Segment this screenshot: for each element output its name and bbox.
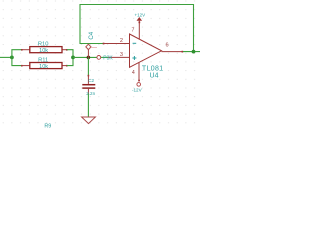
svg-text:U4: U4 — [150, 73, 159, 80]
svg-text:7: 7 — [132, 28, 135, 34]
pin 6 (output) — [162, 43, 184, 53]
pin 7 (V+) — [132, 22, 140, 39]
op-amp U4 — [130, 34, 164, 80]
wire C2 to ground — [87, 94, 89, 117]
hierarchical label C4 on feedback node — [86, 31, 97, 57]
wire node B down to C2 — [87, 57, 89, 75]
resistor R11 — [21, 58, 68, 70]
svg-text:3: 3 — [120, 52, 123, 58]
svg-text:-12V: -12V — [132, 87, 143, 92]
svg-text:6: 6 — [165, 43, 168, 49]
wire R11 right to node A — [67, 57, 73, 65]
svg-text:R11: R11 — [38, 58, 48, 64]
ground — [82, 117, 96, 124]
wire R10 right to node A — [67, 50, 73, 58]
svg-text:R9: R9 — [44, 123, 51, 129]
pin 3 (non-inverting input) — [97, 52, 130, 61]
svg-text:+12V: +12V — [134, 12, 145, 17]
svg-text:C4: C4 — [88, 31, 95, 39]
svg-text:2.2n: 2.2n — [86, 91, 95, 96]
power -12V — [132, 80, 143, 93]
power +12V — [134, 12, 145, 23]
wire node A to node B — [73, 56, 97, 58]
junction input node — [10, 56, 14, 60]
wire output to right edge — [183, 51, 200, 53]
junction node A — [71, 56, 75, 60]
svg-text:TL081: TL081 — [142, 66, 164, 73]
junction output node — [192, 50, 196, 54]
wire input node to R11 left — [12, 57, 22, 65]
wire input node to R10 left — [12, 50, 22, 58]
wire input from left edge — [0, 56, 12, 58]
feedback wire from output junction over the top to pin 2 — [80, 5, 194, 52]
svg-text:4: 4 — [132, 70, 135, 76]
pin 4 (V-) — [132, 63, 139, 81]
svg-text:2: 2 — [120, 38, 123, 44]
svg-text:C2: C2 — [88, 78, 94, 83]
junction node B — [87, 56, 91, 60]
svg-text:P3K: P3K — [103, 55, 113, 61]
resistor R10 — [21, 42, 68, 54]
svg-text:10k: 10k — [39, 48, 48, 54]
capacitor C2 — [82, 75, 95, 96]
svg-text:R10: R10 — [38, 42, 49, 48]
svg-text:10k: 10k — [39, 64, 48, 70]
pin 2 (inverting input) — [103, 38, 130, 44]
